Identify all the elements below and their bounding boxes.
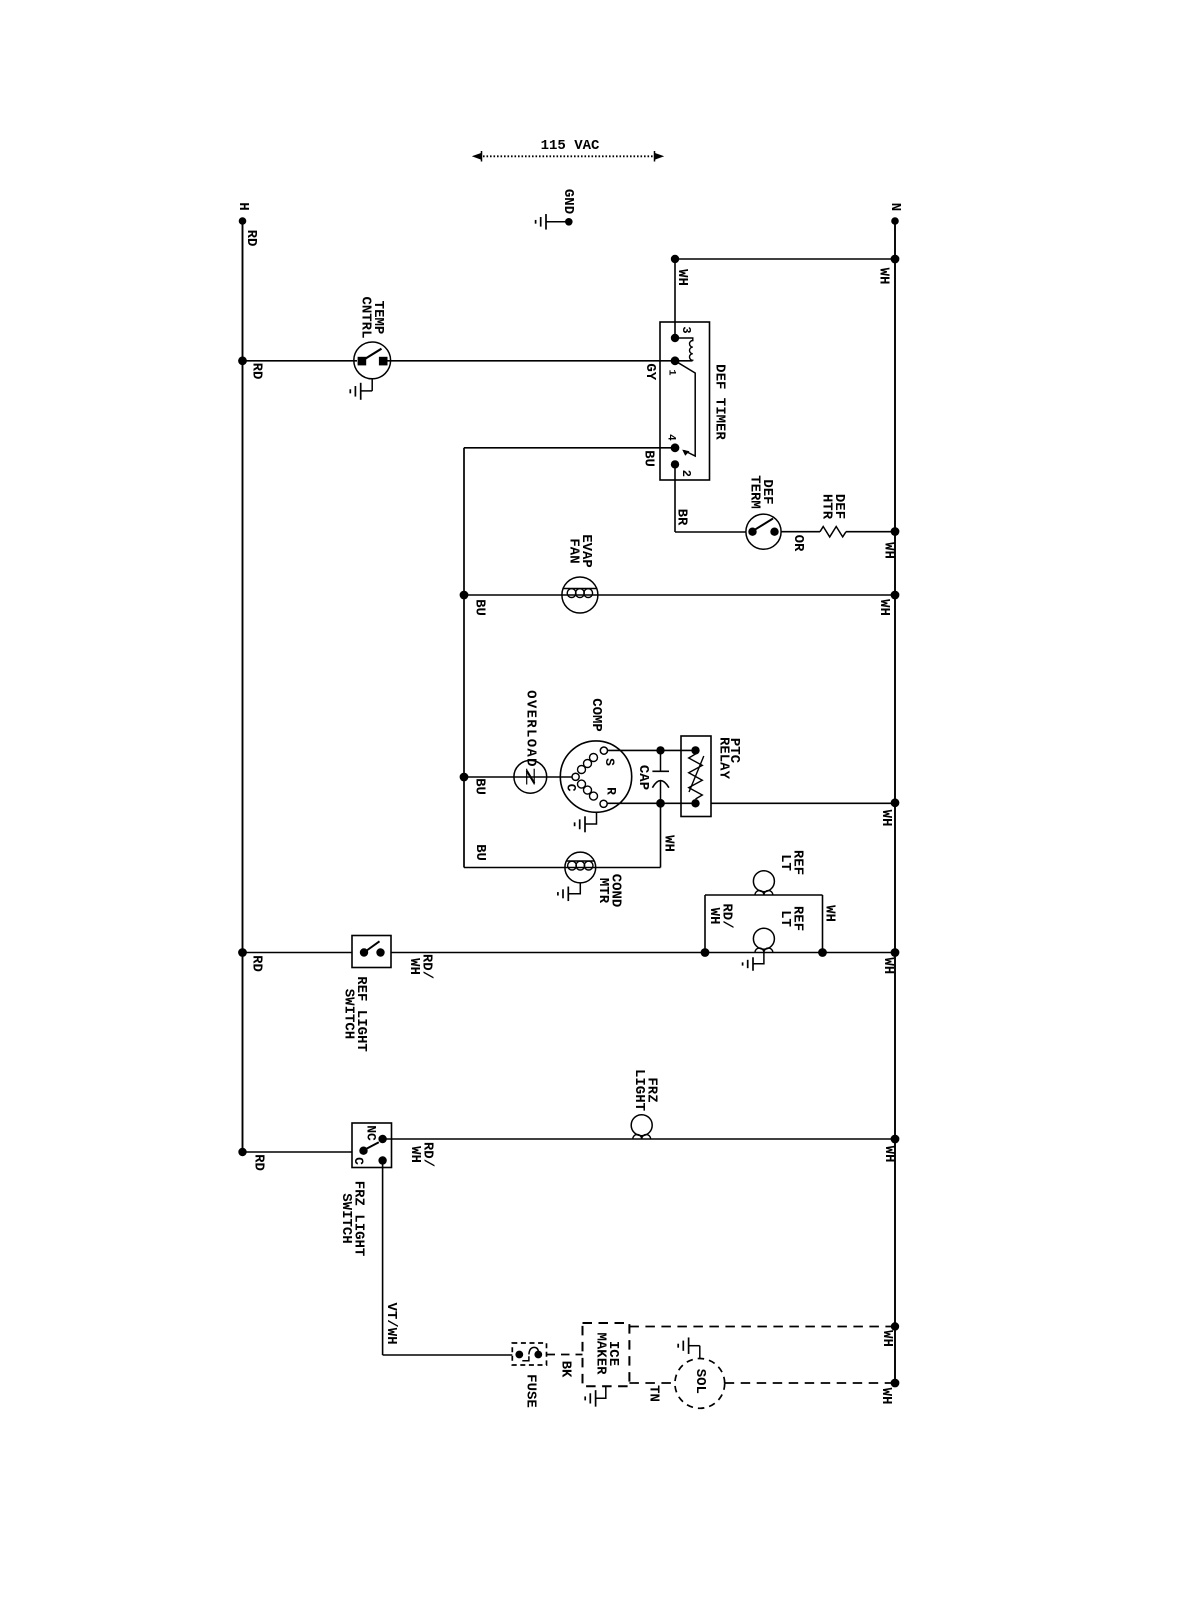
svg-text:WH: WH (878, 810, 894, 827)
svg-text:3: 3 (679, 326, 693, 333)
svg-text:TERM: TERM (746, 475, 762, 509)
svg-text:BU: BU (472, 599, 488, 616)
svg-text:CAP: CAP (635, 765, 651, 790)
svg-text:WH: WH (879, 1330, 895, 1347)
svg-text:SWITCH: SWITCH (338, 1193, 354, 1243)
svg-text:BU: BU (472, 778, 488, 795)
svg-text:COMP: COMP (588, 698, 604, 732)
svg-text:C: C (563, 784, 578, 792)
svg-text:BU: BU (472, 844, 488, 861)
svg-text:BK: BK (558, 1361, 574, 1378)
svg-text:OR: OR (790, 535, 806, 552)
svg-text:WH: WH (661, 835, 677, 852)
svg-text:LT: LT (777, 854, 793, 871)
svg-text:VT/WH: VT/WH (383, 1302, 399, 1344)
svg-text:N: N (887, 203, 903, 211)
svg-text:2: 2 (679, 470, 693, 477)
svg-text:RELAY: RELAY (716, 737, 732, 780)
svg-text:4: 4 (664, 434, 676, 441)
svg-text:S: S (602, 758, 617, 766)
svg-text:SOL: SOL (692, 1369, 708, 1394)
svg-text:WH: WH (407, 1146, 423, 1163)
svg-text:WH: WH (876, 599, 892, 616)
svg-text:RD: RD (248, 363, 264, 380)
svg-text:FAN: FAN (565, 538, 581, 563)
svg-text:LIGHT: LIGHT (631, 1069, 647, 1111)
svg-text:C: C (351, 1157, 366, 1165)
svg-text:WH: WH (876, 268, 892, 285)
svg-text:H: H (235, 202, 251, 210)
svg-text:1: 1 (665, 369, 676, 375)
svg-text:TN: TN (646, 1385, 662, 1402)
svg-text:RD: RD (243, 230, 259, 247)
svg-text:CNTRL: CNTRL (357, 296, 373, 338)
svg-text:LT: LT (777, 910, 793, 927)
svg-text:WH: WH (880, 957, 896, 974)
svg-text:HTR: HTR (818, 494, 834, 520)
svg-text:RD: RD (251, 1154, 267, 1171)
svg-text:115 VAC: 115 VAC (541, 138, 600, 154)
svg-text:WH: WH (822, 905, 838, 922)
svg-text:RD: RD (249, 955, 265, 972)
svg-text:GND: GND (560, 189, 576, 214)
svg-text:WH: WH (878, 1388, 894, 1405)
svg-text:WH: WH (881, 1146, 897, 1163)
svg-text:WH: WH (406, 958, 422, 975)
svg-text:R: R (603, 787, 618, 795)
svg-text:BR: BR (674, 509, 690, 526)
svg-text:GY: GY (642, 363, 658, 380)
svg-text:WH: WH (706, 908, 722, 925)
svg-text:MTR: MTR (595, 878, 611, 904)
svg-text:DEF TIMER: DEF TIMER (711, 364, 727, 440)
svg-text:OVERLOAD: OVERLOAD (523, 690, 539, 768)
svg-text:WH: WH (674, 269, 690, 286)
svg-text:FUSE: FUSE (523, 1374, 539, 1408)
svg-text:SWITCH: SWITCH (340, 989, 356, 1039)
svg-text:MAKER: MAKER (592, 1332, 608, 1375)
svg-text:NC: NC (364, 1125, 379, 1141)
svg-text:BU: BU (641, 450, 657, 467)
svg-text:WH: WH (881, 542, 897, 559)
